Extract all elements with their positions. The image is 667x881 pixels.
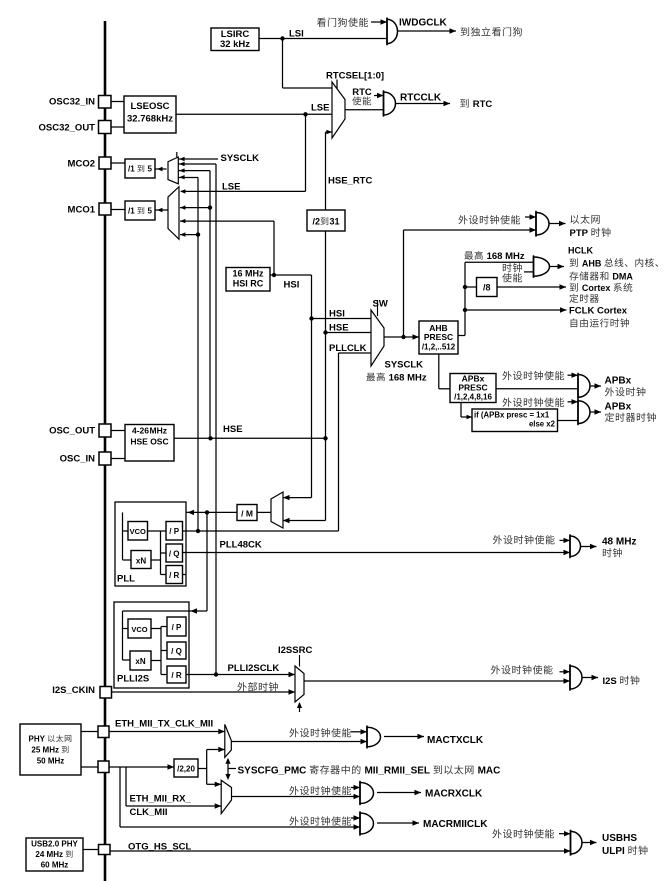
svg-text:168 MHz: 168 MHz [487,251,525,262]
svg-text:DMA: DMA [612,272,633,282]
svg-text:HSI RC: HSI RC [233,279,264,289]
svg-text:VCO: VCO [131,625,147,634]
svg-text:32.768kHz: 32.768kHz [127,114,173,125]
svg-text:SYSCLK: SYSCLK [385,360,424,371]
svg-text:I2S: I2S [603,676,620,687]
svg-text:else x2: else x2 [529,420,556,429]
svg-text:FCLK Cortex: FCLK Cortex [569,306,628,317]
svg-text:/ R: / R [171,671,181,680]
svg-text:/1: /1 [128,165,137,174]
svg-text:PLLI2SCLK: PLLI2SCLK [228,663,280,674]
svg-text:HSE: HSE [329,323,349,334]
svg-text:OSC_IN: OSC_IN [60,454,96,465]
svg-text:ULPI: ULPI [602,846,628,857]
svg-text:MACRMIICLK: MACRMIICLK [423,819,488,830]
svg-text:MCO1: MCO1 [68,205,96,216]
svg-text:/ Q: / Q [169,550,180,559]
svg-text:RTCCLK: RTCCLK [400,93,442,104]
svg-text:24 MHz: 24 MHz [35,850,65,859]
svg-text:CLK_MII: CLK_MII [130,807,168,818]
svg-text:LSE: LSE [222,182,240,193]
svg-text:4-26: 4-26 [132,426,149,436]
svg-text:SYSCFG_PMC: SYSCFG_PMC [238,766,310,777]
svg-text:RTC: RTC [473,99,493,110]
svg-text:HSI: HSI [329,309,345,320]
svg-text:16 MHz: 16 MHz [233,269,265,279]
svg-text:HSE_RTC: HSE_RTC [328,176,372,187]
svg-text:RTC: RTC [352,87,372,98]
svg-text:LSEOSC: LSEOSC [130,101,169,112]
svg-text:SW: SW [373,299,388,310]
svg-text:PLLI2S: PLLI2S [117,674,149,685]
svg-text:48 MHz: 48 MHz [602,537,636,548]
svg-text:25 MHz: 25 MHz [31,746,61,755]
svg-text:32 kHz: 32 kHz [220,39,250,50]
svg-text:60 MHz: 60 MHz [41,861,69,870]
svg-text:MII_RMII_SEL: MII_RMII_SEL [364,766,432,777]
svg-text:HCLK: HCLK [568,246,593,256]
svg-text:5: 5 [145,207,152,216]
svg-text:MCO2: MCO2 [68,159,95,170]
svg-text:PRESC: PRESC [424,332,453,342]
svg-text:I2SSRC: I2SSRC [278,645,312,656]
svg-text:/ M: / M [241,509,253,519]
svg-text:MAC: MAC [478,766,501,777]
svg-text:/ P: / P [172,623,182,632]
svg-text:ETH_MII_RX_: ETH_MII_RX_ [130,794,192,805]
svg-text:LSE: LSE [311,103,329,114]
svg-text:MACTXCLK: MACTXCLK [427,735,484,746]
svg-text:if (APBx presc = 1x1: if (APBx presc = 1x1 [474,411,550,420]
svg-text:OSC32_OUT: OSC32_OUT [39,123,96,134]
svg-text:MHz: MHz [150,426,167,436]
svg-text:50 MHz: 50 MHz [37,757,65,766]
svg-text:IWDGCLK: IWDGCLK [399,18,448,29]
svg-text:APBx: APBx [605,376,632,387]
svg-text:HSI: HSI [284,280,300,291]
svg-text:xN: xN [135,657,145,666]
svg-text:HSE OSC: HSE OSC [130,437,168,447]
svg-text:/8: /8 [483,283,491,293]
svg-text:OSC_OUT: OSC_OUT [49,426,95,437]
svg-text:5: 5 [145,165,152,174]
svg-text:xN: xN [136,557,146,566]
svg-text:PRESC: PRESC [458,383,487,393]
svg-text:PLLCLK: PLLCLK [329,343,367,354]
svg-text:Cortex: Cortex [582,283,613,293]
svg-text:/2: /2 [313,217,321,227]
svg-text:LSI: LSI [289,29,304,40]
svg-text:OTG_HS_SCL: OTG_HS_SCL [128,841,192,852]
svg-text:SYSCLK: SYSCLK [221,153,260,164]
svg-text:168 MHz: 168 MHz [389,373,427,384]
svg-text:USBHS: USBHS [602,833,637,844]
svg-text:PLL: PLL [117,574,135,585]
svg-text:/ P: / P [169,527,179,536]
svg-text:/1,2,..512: /1,2,..512 [422,343,456,352]
svg-text:/ Q: / Q [171,647,182,656]
svg-text:PTP: PTP [570,228,591,239]
svg-text:PLL48CK: PLL48CK [220,540,262,551]
svg-text:OSC32_IN: OSC32_IN [49,97,95,108]
svg-text:I2S_CKIN: I2S_CKIN [52,685,95,696]
svg-text:VCO: VCO [130,527,146,536]
svg-text:HSE: HSE [223,424,243,435]
svg-text:APBx: APBx [605,402,632,413]
svg-text:RTCSEL[1:0]: RTCSEL[1:0] [326,71,384,82]
svg-text:/ R: / R [169,571,179,580]
svg-text:/1,2,4,8,16: /1,2,4,8,16 [454,393,492,402]
svg-text:/2,20: /2,20 [177,765,195,774]
svg-text:MACRXCLK: MACRXCLK [425,789,483,800]
svg-text:AHB: AHB [582,258,604,268]
svg-text:USB2.0 PHY: USB2.0 PHY [31,840,78,849]
svg-text:ETH_MII_TX_CLK_MII: ETH_MII_TX_CLK_MII [115,719,213,730]
svg-text:/1: /1 [128,207,137,216]
svg-text:31: 31 [329,217,339,227]
svg-text:PHY: PHY [29,735,48,744]
